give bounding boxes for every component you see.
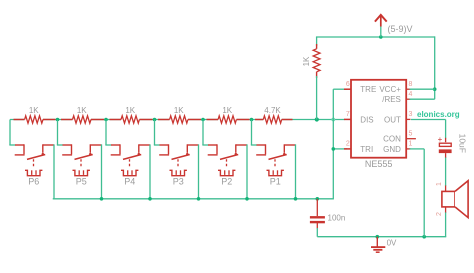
- svg-text:OUT: OUT: [384, 115, 401, 124]
- svg-text:1: 1: [409, 141, 413, 148]
- svg-text:7: 7: [346, 111, 350, 118]
- svg-text:4: 4: [409, 91, 413, 98]
- svg-text:CON: CON: [383, 135, 401, 144]
- svg-text:10uF: 10uF: [457, 134, 467, 153]
- svg-text:P1: P1: [270, 177, 281, 187]
- svg-text:GND: GND: [383, 145, 401, 154]
- svg-text:1K: 1K: [125, 106, 135, 115]
- svg-text:1K: 1K: [29, 106, 39, 115]
- svg-text:NE555: NE555: [365, 159, 393, 169]
- svg-text:1K: 1K: [77, 106, 87, 115]
- svg-text:2: 2: [436, 212, 443, 216]
- svg-text:(5-9)V: (5-9)V: [388, 24, 413, 34]
- svg-text:1K: 1K: [222, 106, 232, 115]
- svg-text:100n: 100n: [328, 213, 346, 222]
- svg-text:1K: 1K: [174, 106, 184, 115]
- svg-text:5: 5: [409, 130, 413, 137]
- svg-text:+: +: [438, 135, 443, 144]
- svg-text:0V: 0V: [387, 239, 397, 248]
- svg-text:1K: 1K: [302, 56, 311, 66]
- svg-text:P4: P4: [124, 177, 135, 187]
- svg-text:TRI: TRI: [360, 145, 373, 154]
- svg-text:3: 3: [409, 111, 413, 118]
- svg-text:1: 1: [436, 182, 443, 186]
- svg-text:P6: P6: [28, 177, 39, 187]
- svg-text:6: 6: [346, 81, 350, 88]
- svg-text:P3: P3: [173, 177, 184, 187]
- svg-text:elonics.org: elonics.org: [417, 110, 460, 119]
- svg-text:VCC+: VCC+: [379, 85, 401, 94]
- svg-text:P2: P2: [221, 177, 232, 187]
- svg-text:8: 8: [409, 81, 413, 88]
- svg-text:P5: P5: [76, 177, 87, 187]
- svg-text:DIS: DIS: [360, 115, 373, 124]
- svg-text:2: 2: [346, 141, 350, 148]
- svg-text:/RES: /RES: [382, 95, 401, 104]
- svg-text:TRE: TRE: [360, 85, 376, 94]
- svg-text:4.7K: 4.7K: [264, 106, 281, 115]
